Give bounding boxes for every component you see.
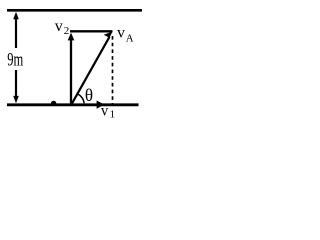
svg-text:v: v (55, 18, 63, 35)
svg-text:v: v (101, 103, 109, 119)
svg-text:2: 2 (64, 25, 69, 37)
svg-text:θ: θ (85, 84, 93, 105)
svg-text:A: A (126, 34, 134, 45)
svg-text:1: 1 (110, 109, 116, 121)
svg-text:v: v (117, 25, 125, 42)
svg-text:9m: 9m (7, 50, 23, 70)
